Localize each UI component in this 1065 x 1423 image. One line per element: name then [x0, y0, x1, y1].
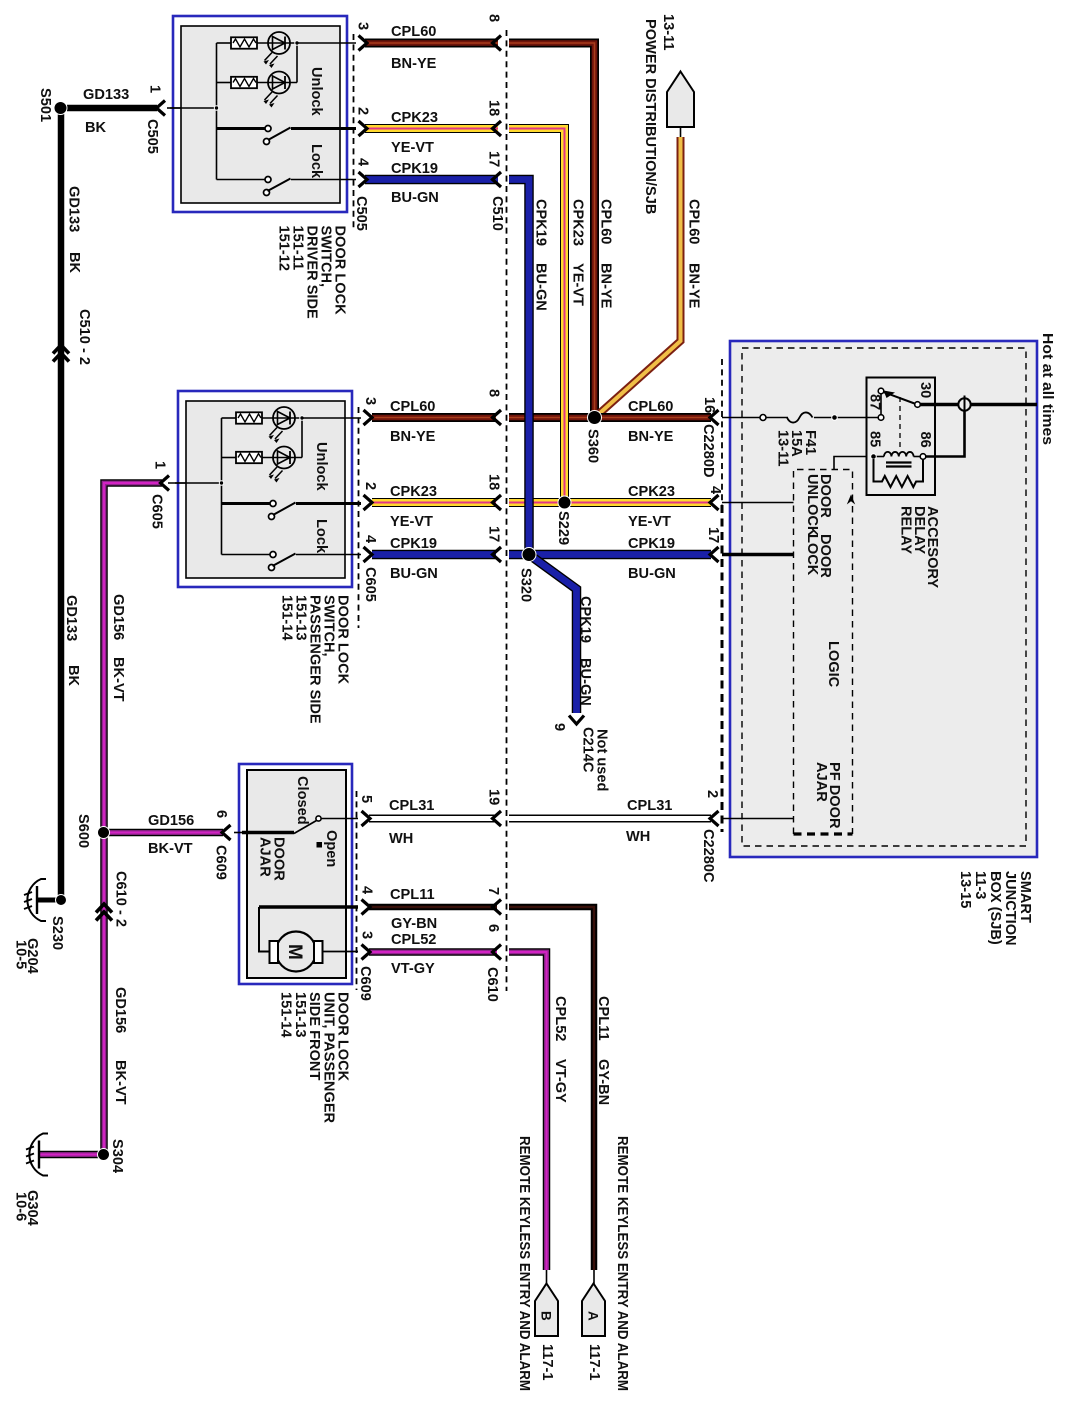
svg-text:CPL52: CPL52: [391, 932, 436, 948]
svg-text:GD133: GD133: [66, 186, 82, 232]
svg-text:BU-GN: BU-GN: [577, 658, 593, 706]
svg-text:BN-YE: BN-YE: [390, 429, 436, 445]
svg-text:16: 16: [701, 397, 717, 413]
svg-text:C510: C510: [489, 196, 505, 231]
svg-text:C505: C505: [353, 196, 369, 231]
svg-text:87: 87: [867, 394, 883, 410]
svg-text:18: 18: [486, 100, 502, 116]
svg-text:CPL60: CPL60: [598, 199, 614, 244]
svg-text:GD133: GD133: [83, 87, 129, 103]
svg-text:11-3: 11-3: [972, 871, 988, 899]
svg-text:CPK19: CPK19: [533, 199, 549, 246]
svg-text:7: 7: [485, 887, 501, 895]
svg-text:VT-GY: VT-GY: [391, 961, 435, 977]
svg-text:C610: C610: [484, 967, 500, 1002]
svg-text:3: 3: [355, 22, 371, 30]
svg-text:BN-YE: BN-YE: [598, 263, 614, 309]
svg-text:Unlock: Unlock: [313, 442, 329, 492]
svg-text:JUNCTION: JUNCTION: [1002, 871, 1018, 946]
svg-text:BK: BK: [66, 252, 82, 274]
svg-text:CPK23: CPK23: [391, 110, 438, 126]
svg-text:S304: S304: [109, 1139, 125, 1174]
svg-text:6: 6: [213, 810, 229, 818]
svg-text:CPL11: CPL11: [390, 887, 435, 903]
svg-text:9: 9: [551, 723, 567, 731]
svg-text:4: 4: [707, 486, 723, 495]
svg-text:C609: C609: [357, 966, 373, 1001]
svg-text:C605: C605: [362, 567, 378, 602]
svg-text:C2280D: C2280D: [700, 424, 716, 478]
svg-text:REMOTE KEYLESS ENTRY AND ALARM: REMOTE KEYLESS ENTRY AND ALARM: [614, 1136, 630, 1391]
svg-text:LOCK: LOCK: [804, 534, 820, 576]
svg-text:86: 86: [917, 432, 933, 448]
svg-text:17: 17: [486, 526, 502, 542]
svg-text:GD156: GD156: [112, 987, 128, 1033]
svg-text:S600: S600: [75, 814, 91, 848]
svg-text:YE-VT: YE-VT: [570, 263, 586, 306]
svg-text:CPK23: CPK23: [628, 484, 675, 500]
svg-text:SMART: SMART: [1017, 871, 1033, 923]
svg-text:10-5: 10-5: [13, 940, 29, 969]
svg-text:YE-VT: YE-VT: [628, 514, 671, 530]
svg-text:CPL60: CPL60: [390, 399, 435, 415]
svg-text:CPK23: CPK23: [390, 484, 437, 500]
svg-text:BU-GN: BU-GN: [391, 190, 439, 206]
svg-text:YE-VT: YE-VT: [390, 514, 433, 530]
svg-text:Open: Open: [323, 830, 339, 867]
svg-text:BK-VT: BK-VT: [112, 1060, 128, 1105]
svg-text:2: 2: [355, 107, 371, 115]
svg-text:POWER DISTRIBUTION/SJB: POWER DISTRIBUTION/SJB: [642, 19, 658, 214]
svg-text:BK-VT: BK-VT: [110, 657, 126, 702]
svg-text:A: A: [586, 1311, 601, 1321]
svg-text:C2280C: C2280C: [700, 829, 716, 883]
svg-text:CPK19: CPK19: [391, 161, 438, 177]
svg-text:17: 17: [705, 527, 721, 543]
svg-text:151-14: 151-14: [278, 992, 294, 1038]
svg-text:WH: WH: [626, 829, 650, 845]
svg-text:BK: BK: [65, 665, 81, 687]
svg-text:B: B: [539, 1311, 554, 1321]
svg-text:151-12: 151-12: [276, 226, 292, 271]
svg-text:GY-BN: GY-BN: [391, 916, 437, 932]
svg-text:C214C: C214C: [580, 727, 596, 773]
svg-text:13-11: 13-11: [774, 430, 790, 467]
svg-text:AJAR: AJAR: [257, 837, 273, 877]
svg-text:CPL60: CPL60: [686, 199, 702, 244]
svg-text:5: 5: [358, 795, 374, 803]
svg-text:C605: C605: [149, 494, 165, 529]
svg-text:CPK19: CPK19: [628, 536, 675, 552]
svg-text:CPL60: CPL60: [391, 24, 436, 40]
svg-text:4: 4: [355, 158, 371, 167]
svg-text:3: 3: [362, 397, 378, 405]
svg-text:S360: S360: [585, 429, 601, 463]
svg-text:AJAR: AJAR: [813, 762, 829, 802]
svg-text:4: 4: [362, 535, 378, 544]
svg-text:CPL11: CPL11: [595, 996, 611, 1041]
svg-text:BOX (SJB): BOX (SJB): [987, 871, 1003, 945]
svg-text:C609: C609: [213, 845, 229, 880]
svg-text:3: 3: [359, 931, 375, 939]
svg-text:GY-BN: GY-BN: [595, 1059, 611, 1105]
svg-text:YE-VT: YE-VT: [391, 140, 434, 156]
svg-text:Lock: Lock: [313, 519, 329, 554]
svg-text:13-15: 13-15: [957, 871, 973, 908]
svg-text:BK-VT: BK-VT: [148, 841, 193, 857]
svg-text:LOGIC: LOGIC: [825, 641, 841, 688]
svg-text:17: 17: [486, 151, 502, 167]
svg-text:Unlock: Unlock: [308, 67, 324, 117]
svg-text:S320: S320: [518, 568, 534, 602]
svg-text:8: 8: [486, 389, 502, 397]
svg-text:REMOTE KEYLESS ENTRY AND ALARM: REMOTE KEYLESS ENTRY AND ALARM: [516, 1136, 532, 1391]
svg-text:13-11: 13-11: [660, 14, 676, 51]
svg-text:GD156: GD156: [110, 594, 126, 640]
svg-text:CPK23: CPK23: [570, 199, 586, 246]
svg-text:8: 8: [486, 14, 502, 22]
svg-text:C510 - 2: C510 - 2: [76, 309, 92, 365]
svg-text:Hot at all times: Hot at all times: [1039, 333, 1055, 445]
svg-text:BN-YE: BN-YE: [391, 56, 437, 72]
svg-text:Lock: Lock: [308, 144, 324, 179]
svg-text:85: 85: [867, 431, 883, 447]
svg-text:RELAY: RELAY: [898, 506, 914, 554]
svg-text:CPL31: CPL31: [627, 798, 672, 814]
svg-text:18: 18: [486, 474, 502, 490]
svg-text:117-1: 117-1: [586, 1344, 602, 1381]
svg-text:19: 19: [486, 789, 502, 805]
svg-text:6: 6: [485, 924, 501, 932]
svg-text:1: 1: [147, 85, 163, 93]
svg-text:CPL60: CPL60: [628, 399, 673, 415]
svg-text:Not used: Not used: [594, 729, 610, 791]
svg-text:CPK19: CPK19: [390, 536, 437, 552]
svg-text:S501: S501: [37, 88, 53, 122]
svg-text:BU-GN: BU-GN: [628, 566, 676, 582]
svg-text:117-1: 117-1: [539, 1344, 555, 1381]
svg-text:C610 - 2: C610 - 2: [113, 871, 129, 927]
svg-text:CPL31: CPL31: [389, 798, 434, 814]
svg-text:BK: BK: [85, 120, 107, 136]
svg-text:BN-YE: BN-YE: [686, 263, 702, 309]
svg-text:1: 1: [152, 461, 168, 469]
svg-text:2: 2: [704, 790, 720, 798]
svg-text:GD156: GD156: [148, 813, 194, 829]
svg-text:M: M: [284, 944, 305, 960]
svg-text:151-14: 151-14: [279, 595, 295, 641]
svg-text:BN-YE: BN-YE: [628, 429, 674, 445]
svg-text:Closed: Closed: [294, 776, 310, 825]
svg-text:GD133: GD133: [63, 595, 79, 641]
svg-text:BU-GN: BU-GN: [390, 566, 438, 582]
svg-text:CPK19: CPK19: [577, 596, 593, 643]
svg-text:BU-GN: BU-GN: [533, 263, 549, 311]
svg-text:CPL52: CPL52: [552, 996, 568, 1041]
svg-text:WH: WH: [389, 831, 413, 847]
svg-text:30: 30: [917, 382, 933, 398]
svg-text:UNLOCK: UNLOCK: [804, 474, 820, 537]
svg-text:S229: S229: [555, 511, 571, 545]
svg-text:S230: S230: [49, 916, 65, 950]
svg-text:10-6: 10-6: [13, 1192, 29, 1221]
svg-text:VT-GY: VT-GY: [552, 1059, 568, 1103]
svg-text:2: 2: [362, 482, 378, 490]
svg-text:C505: C505: [144, 119, 160, 154]
svg-text:4: 4: [359, 886, 375, 895]
